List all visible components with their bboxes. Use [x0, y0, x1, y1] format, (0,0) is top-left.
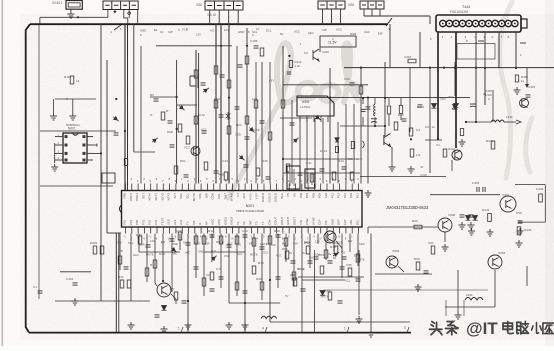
- svg-text:XS101: XS101: [52, 1, 62, 5]
- svg-text:C1: C1: [33, 285, 37, 289]
- wire: [325, 234, 327, 261]
- svg-text:SCL: SCL: [345, 279, 351, 283]
- svg-text:VOL: VOL: [198, 193, 202, 199]
- IC N201 pin 54 lead: [219, 227, 221, 234]
- svg-text:AFC: AFC: [326, 239, 331, 243]
- svg-text:C12: C12: [199, 113, 205, 117]
- IC N301 pin 4: [320, 116, 322, 122]
- capacitor C155: [301, 289, 306, 291]
- svg-text:VD3: VD3: [440, 97, 446, 101]
- junction: [360, 67, 362, 69]
- capacitor C406: [361, 109, 366, 111]
- wire: [388, 114, 390, 126]
- wire: [291, 100, 293, 184]
- resistor R110: [268, 132, 272, 140]
- resistor R153: [178, 232, 182, 240]
- IC N201 pin 26 lead: [282, 184, 284, 191]
- wire: [140, 46, 142, 184]
- wire: [133, 24, 135, 152]
- svg-text:V.SY: V.SY: [255, 193, 259, 199]
- wire: [425, 139, 442, 141]
- svg-text:SDA: SDA: [304, 240, 310, 244]
- connector XP105: [360, 1, 384, 9]
- resistor R105: [194, 116, 198, 124]
- IC N201 pin 7 lead: [162, 184, 164, 191]
- resistor R116: [194, 70, 198, 78]
- IC N601 pin pad: [83, 135, 86, 138]
- wire: [195, 234, 197, 279]
- capacitor C161: [469, 215, 474, 217]
- capacitor C140: [124, 267, 129, 269]
- IC N301 pin 1: [299, 116, 301, 122]
- resistor R103: [178, 124, 182, 132]
- wire: [40, 185, 113, 187]
- svg-text:VCC: VCC: [184, 146, 190, 150]
- resistor R131: [408, 59, 416, 63]
- IC N201 pin 38 lead: [358, 184, 360, 191]
- capacitor C147: [210, 289, 215, 291]
- wire: [137, 10, 139, 25]
- svg-text:P33: P33: [154, 219, 158, 225]
- wire: [211, 234, 213, 263]
- IC N601 pin pad: [83, 159, 86, 162]
- schematic border frame top: [30, 23, 388, 25]
- resistor R122: [310, 174, 314, 182]
- svg-text:BOUT: BOUT: [293, 217, 297, 225]
- svg-text:BL: BL: [154, 28, 158, 32]
- svg-text:R60: R60: [414, 257, 420, 261]
- wire: [492, 90, 494, 122]
- ground: [442, 244, 449, 251]
- wire: [451, 160, 453, 171]
- svg-text:P01: P01: [305, 193, 309, 199]
- svg-text:GND: GND: [194, 241, 200, 245]
- capacitor C118: [298, 173, 303, 175]
- connector T444 body: [436, 15, 521, 32]
- IC N201 pin 20 lead: [244, 184, 246, 191]
- wire: [176, 60, 178, 184]
- svg-text:C220: C220: [420, 173, 428, 177]
- diode VD608: [320, 291, 325, 296]
- svg-text:AGC: AGC: [211, 219, 215, 225]
- svg-text:C467: C467: [528, 85, 536, 89]
- wire: [504, 121, 516, 123]
- capacitor C152: [276, 235, 281, 237]
- svg-text:RGB: RGB: [167, 130, 173, 134]
- svg-text:H.SY: H.SY: [248, 193, 252, 200]
- transistor V606: [438, 218, 452, 232]
- wire: [150, 96, 177, 98]
- svg-text:R51: R51: [282, 247, 288, 251]
- wire: [297, 97, 470, 99]
- resistor R127: [394, 122, 398, 130]
- logo glyph xiao: [532, 322, 542, 333]
- IC N201 pin 73 lead: [339, 227, 341, 234]
- resistor R189: [356, 254, 360, 262]
- IC N301 pin 5: [327, 116, 329, 122]
- svg-text:GND: GND: [198, 250, 204, 254]
- wire: [379, 9, 381, 16]
- wire: [277, 234, 279, 289]
- resistor R155: [174, 292, 178, 300]
- svg-text:SDA: SDA: [315, 252, 321, 256]
- resistor R181: [328, 292, 332, 300]
- junction: [124, 130, 126, 132]
- svg-text:COL: COL: [217, 193, 221, 199]
- svg-text:YIN: YIN: [299, 220, 303, 225]
- IC N201 pin 59 lead: [250, 227, 252, 234]
- wire: [301, 234, 303, 333]
- wire: [130, 234, 132, 302]
- strap diagonal: [114, 25, 121, 30]
- diode diagonal: [178, 104, 186, 111]
- svg-text:HS: HS: [293, 193, 297, 197]
- svg-text:OSD: OSD: [172, 242, 178, 246]
- capacitor C153: [38, 291, 43, 293]
- wire: [336, 241, 342, 252]
- wire: [409, 68, 411, 132]
- IC N201 pin 39 lead: [125, 227, 127, 234]
- wire: [218, 10, 220, 24]
- IC N201 pin 44 lead: [156, 227, 158, 234]
- capacitor C122: [366, 107, 371, 109]
- capacitor C124: [402, 119, 407, 121]
- capacitor C151: [243, 291, 248, 293]
- IC N201 pin 18 lead: [232, 184, 234, 191]
- svg-text:SDA: SDA: [179, 193, 183, 199]
- svg-text:5V: 5V: [280, 32, 284, 36]
- svg-text:RGB: RGB: [218, 173, 224, 177]
- IC N601 pin 8: [87, 136, 93, 138]
- svg-text:R204: R204: [214, 97, 222, 101]
- wire: [138, 234, 140, 253]
- svg-text:SIF: SIF: [192, 220, 196, 225]
- svg-text:AV1: AV1: [173, 219, 177, 225]
- svg-text:45: 45: [420, 165, 424, 169]
- svg-text:C30: C30: [176, 229, 182, 233]
- wire: [358, 250, 360, 315]
- svg-text:BAND: BAND: [230, 193, 234, 201]
- wire: [460, 194, 500, 196]
- svg-text:FSA16012M: FSA16012M: [450, 10, 468, 14]
- wire: [360, 176, 446, 178]
- scan edge artifact: [2, 0, 4, 346]
- resistor R447: [460, 129, 463, 136]
- svg-text:C106: C106: [250, 39, 258, 43]
- svg-text:VCC: VCC: [294, 29, 300, 33]
- IC N201 pin 57 lead: [238, 227, 240, 234]
- svg-text:IF: IF: [150, 113, 153, 117]
- resistor R167: [306, 246, 310, 254]
- IC N201 pin 45 lead: [162, 227, 164, 234]
- diode diagonal: [238, 154, 246, 161]
- resistor R164: [260, 282, 264, 290]
- svg-text:11.5V: 11.5V: [328, 41, 337, 45]
- wire bus from XP105: [364, 15, 430, 17]
- svg-text:C2.. 1n: C2.. 1n: [425, 125, 435, 129]
- resistor R177: [431, 246, 435, 254]
- capacitor C169: [219, 277, 224, 279]
- svg-text:RST: RST: [141, 193, 145, 199]
- wire: [283, 84, 368, 86]
- junction: [329, 97, 331, 99]
- svg-text:MUTE: MUTE: [297, 267, 305, 271]
- wire: [345, 104, 347, 184]
- wire: [156, 45, 232, 47]
- svg-text:P32: P32: [148, 219, 152, 225]
- capacitor C149: [243, 235, 248, 237]
- IC N201 pin 33 lead: [326, 184, 328, 191]
- connector T444 pin 1: [440, 20, 446, 26]
- tick: [347, 327, 349, 333]
- svg-text:MUTE: MUTE: [216, 240, 224, 244]
- wire: [246, 28, 248, 184]
- svg-text:XS6: XS6: [196, 3, 202, 7]
- resistor R157: [219, 236, 223, 244]
- IC N201 pin 34 lead: [332, 184, 334, 191]
- wire: [544, 185, 546, 223]
- resistor R146: [93, 246, 97, 254]
- junction: [269, 279, 271, 281]
- svg-text:P03: P03: [318, 193, 322, 199]
- wire: [353, 104, 355, 184]
- wire: [340, 9, 342, 24]
- svg-text:TEST: TEST: [160, 217, 164, 225]
- IC N601 pin pad: [83, 144, 86, 147]
- svg-text:CW: CW: [293, 242, 298, 246]
- diode VD441: [432, 104, 437, 109]
- svg-text:SDA: SDA: [359, 242, 365, 246]
- svg-text:DEF: DEF: [337, 219, 341, 225]
- junction: [443, 67, 445, 69]
- resistor R450: [515, 75, 518, 82]
- svg-text:P10: P10: [324, 193, 328, 199]
- transistor V604: [488, 255, 502, 269]
- IC N601 pin pad: [83, 152, 86, 155]
- svg-text:OSD: OSD: [224, 254, 230, 258]
- resistor R187: [292, 272, 296, 280]
- block outline: [102, 173, 115, 183]
- resistor R212: [289, 61, 292, 68]
- resistor R113: [245, 56, 249, 64]
- connector T444 pin 3: [453, 20, 459, 26]
- power box 11.5V: [320, 36, 356, 47]
- svg-text:V603: V603: [392, 249, 400, 253]
- wire: [515, 184, 545, 186]
- diode diagonal: [332, 251, 340, 258]
- svg-text:C432: C432: [536, 187, 544, 191]
- junction: [429, 67, 431, 69]
- capacitor C143: [186, 243, 191, 245]
- resistor R120: [256, 168, 260, 176]
- ground: [185, 322, 192, 329]
- svg-text:R56: R56: [412, 219, 418, 223]
- svg-text:AV2: AV2: [179, 219, 183, 225]
- wire: [374, 117, 376, 126]
- capacitor C145: [210, 235, 215, 237]
- svg-text:OSD.R: OSD.R: [261, 193, 265, 202]
- svg-text:AFC: AFC: [308, 31, 314, 35]
- IC N601 pin 3: [55, 152, 63, 154]
- svg-text:V606: V606: [448, 213, 456, 217]
- wire: [444, 232, 446, 242]
- junction: [282, 158, 284, 160]
- svg-text:SCL: SCL: [237, 252, 243, 256]
- wire: [333, 234, 335, 253]
- svg-text:AGC: AGC: [183, 241, 189, 245]
- svg-text:MUTE: MUTE: [252, 128, 260, 132]
- capacitor C107: [260, 121, 265, 123]
- svg-text:OSC2: OSC2: [135, 193, 139, 201]
- svg-text:MUTE: MUTE: [146, 253, 154, 257]
- resistor R215: [335, 147, 338, 153]
- resistor R151: [127, 280, 131, 288]
- svg-text:C44: C44: [242, 229, 248, 233]
- svg-text:APC: APC: [217, 219, 221, 225]
- wire: [400, 98, 402, 105]
- IC N201 pin 49 lead: [188, 227, 190, 234]
- IC N201 pin 74 lead: [345, 227, 347, 234]
- resistor R165: [285, 251, 289, 259]
- ground: [69, 113, 76, 120]
- wire: [466, 121, 491, 123]
- capacitor C103: [202, 131, 207, 133]
- diode diagonal: [292, 136, 300, 143]
- svg-text:RGB: RGB: [350, 32, 356, 36]
- wire: [445, 300, 447, 316]
- wire: [375, 273, 432, 275]
- zener VD206: [335, 138, 339, 142]
- svg-text:GND: GND: [238, 30, 244, 34]
- crossed mark: [226, 112, 231, 120]
- resistor R407: [399, 106, 402, 114]
- svg-text:CW: CW: [117, 241, 122, 245]
- junction: [374, 125, 376, 127]
- IC N201 left notch: [120, 205, 122, 213]
- wire: [40, 130, 116, 132]
- resistor R101: [70, 76, 74, 84]
- wire: [370, 234, 372, 331]
- wire: [253, 234, 255, 263]
- wire: [107, 10, 109, 18]
- resistor R123: [332, 172, 336, 180]
- wire: [139, 251, 180, 253]
- resistor R118: [204, 162, 208, 170]
- svg-text:ABL: ABL: [172, 252, 178, 256]
- IC N201 pin 9 lead: [175, 184, 177, 191]
- resistor R205: [124, 159, 127, 166]
- ground: [356, 316, 363, 323]
- IC N601 pin pad: [65, 159, 68, 162]
- wire: [398, 266, 404, 272]
- wire: [457, 270, 459, 312]
- IC N201 pin 11 lead: [188, 184, 190, 191]
- svg-text:M6M80011: M6M80011: [66, 123, 80, 127]
- IC N201 pin 27 lead: [288, 184, 290, 191]
- resistor R125: [359, 86, 363, 94]
- svg-text:BL: BL: [120, 249, 124, 253]
- svg-text:V604: V604: [498, 251, 506, 255]
- diode diagonal: [170, 246, 178, 253]
- svg-text:P21: P21: [356, 193, 360, 199]
- svg-text:@IT: @IT: [466, 319, 498, 338]
- capacitor C113: [154, 99, 159, 101]
- svg-text:SCL: SCL: [252, 30, 258, 34]
- wire: [70, 9, 72, 11]
- capacitor C116: [244, 165, 249, 167]
- svg-text:VD1: VD1: [448, 95, 454, 99]
- wire: [106, 60, 108, 233]
- svg-text:CW: CW: [205, 241, 210, 245]
- junction: [176, 96, 178, 98]
- resistor R154: [194, 236, 198, 244]
- capacitor C165: [338, 301, 343, 303]
- svg-text:EW: EW: [378, 31, 383, 35]
- IC N201 pin 62 lead: [269, 227, 271, 234]
- connector XP104: [318, 1, 345, 9]
- terminal arrow: [525, 84, 529, 88]
- logo glyph tou: [430, 322, 442, 335]
- svg-text:LA7910: LA7910: [300, 105, 311, 109]
- wire: [388, 98, 390, 105]
- diode diagonal: [210, 254, 218, 261]
- wire: [429, 16, 431, 24]
- wire: [220, 24, 222, 184]
- IC N601 pin 1: [55, 136, 63, 138]
- resistor R188: [324, 250, 328, 258]
- wire: [367, 227, 369, 234]
- junction: [228, 97, 230, 99]
- svg-text:AFC: AFC: [242, 193, 246, 199]
- IC N601 pin 2: [55, 144, 63, 146]
- wire: [283, 158, 352, 160]
- IC N601 body: [63, 133, 87, 163]
- svg-text:C4: C4: [416, 128, 420, 132]
- resistor R162: [268, 236, 272, 244]
- svg-text:R433: R433: [524, 228, 532, 232]
- ground: [365, 190, 372, 197]
- IC N601 pin 4: [55, 159, 63, 161]
- svg-text:12V: 12V: [224, 28, 229, 32]
- svg-text:OSD.G: OSD.G: [267, 192, 271, 202]
- svg-text:X1: X1: [236, 221, 240, 225]
- wire: [283, 172, 360, 174]
- svg-text:GND1: GND1: [223, 217, 227, 225]
- capacitor C212: [287, 72, 292, 74]
- svg-text:SCL: SCL: [263, 251, 269, 255]
- svg-text:P31: P31: [141, 219, 145, 225]
- wire: [430, 194, 460, 196]
- svg-text:SCL: SCL: [186, 193, 190, 199]
- capacitor C108: [290, 123, 295, 125]
- IC N201 pin 76 lead: [358, 227, 360, 234]
- wire: [322, 9, 324, 24]
- resistor R119: [224, 172, 228, 180]
- svg-text:C462: C462: [404, 55, 412, 59]
- connector T444 pin 12: [512, 20, 518, 26]
- wire: [322, 118, 324, 184]
- svg-text:MUTE: MUTE: [357, 257, 365, 261]
- capacitor C123: [371, 119, 377, 123]
- svg-text:OSD: OSD: [235, 132, 241, 136]
- wire: [319, 47, 321, 52]
- wire: [38, 24, 40, 299]
- junction: [475, 121, 477, 123]
- IC N201 pin 64 lead: [282, 227, 284, 234]
- svg-text:KEY2: KEY2: [160, 193, 164, 201]
- resistor R106: [214, 100, 218, 108]
- svg-text:ABL: ABL: [349, 219, 353, 225]
